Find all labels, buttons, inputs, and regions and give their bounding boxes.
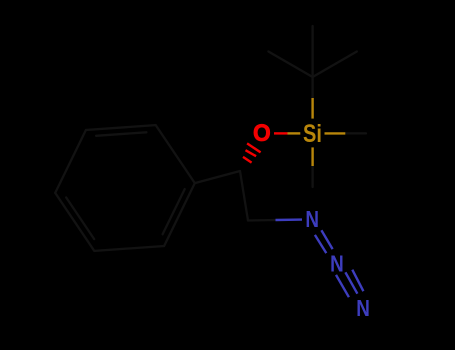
triple bond N2-N3 line 3: [352, 270, 363, 292]
triple bond N2-N3 line 2: [345, 272, 357, 293]
bond O to Si, oxygen half: [274, 132, 288, 134]
wire CH2 to N (carbon half): [248, 219, 276, 222]
svg-text:N: N: [305, 207, 319, 232]
svg-text:N: N: [330, 252, 344, 277]
Si right bond (silicon half): [325, 132, 346, 134]
double bond N1=N2 line 1: [321, 230, 332, 249]
hashed stereo wedge C1 to O: [243, 133, 288, 162]
double bond N1=N2 line 2: [315, 235, 326, 253]
Si down methyl (carbon half): [311, 166, 313, 187]
bond O to Si, silicon half: [288, 132, 301, 134]
wire C1 to CH2: [240, 171, 248, 221]
tert-butyl quaternary C bond to Si (carbon half): [311, 77, 313, 98]
wire phenyl to C1: [195, 171, 240, 183]
svg-text:Si: Si: [303, 120, 322, 148]
tert-butyl methyl up-left: [268, 52, 312, 78]
Si up bond (silicon half): [311, 98, 313, 119]
tert-butyl methyl up: [311, 26, 313, 77]
svg-text:N: N: [356, 296, 370, 321]
Si right methyl (carbon half): [345, 132, 366, 134]
Si down bond (silicon half): [311, 147, 313, 166]
benzene ring (phenyl): [55, 26, 366, 251]
svg-text:O: O: [253, 120, 271, 147]
ring double bond inner lines: [163, 189, 185, 234]
triple bond N2-N3 line 1: [336, 275, 349, 297]
tert-butyl methyl up-right: [313, 52, 357, 78]
bond CH2 to N1, nitrogen half: [276, 218, 303, 221]
